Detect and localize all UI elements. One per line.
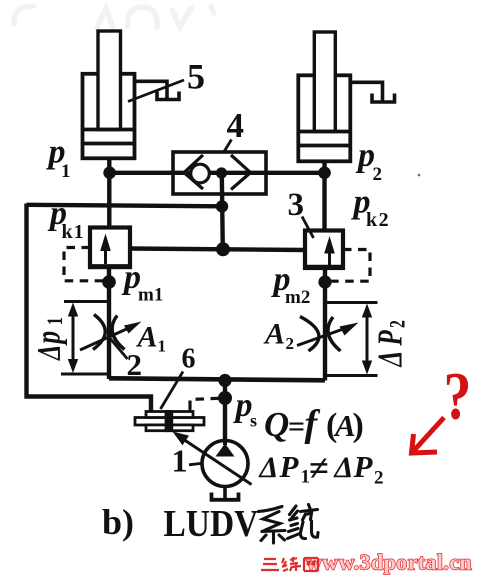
svg-text:m2: m2 — [285, 287, 310, 308]
svg-text:P: P — [353, 449, 374, 484]
svg-text:1: 1 — [44, 317, 68, 325]
svg-text:s: s — [250, 411, 257, 431]
svg-text:2: 2 — [386, 320, 410, 328]
svg-text:Δ: Δ — [371, 351, 410, 368]
svg-text:Δ: Δ — [31, 345, 67, 361]
svg-text:A: A — [263, 318, 285, 351]
svg-text:=: = — [288, 410, 305, 443]
svg-text:3: 3 — [288, 187, 305, 223]
svg-text:m1: m1 — [138, 285, 163, 306]
svg-text:6: 6 — [182, 344, 196, 375]
svg-text:p: p — [29, 331, 68, 346]
svg-text:Δ: Δ — [334, 451, 354, 484]
svg-text:?: ? — [444, 359, 472, 433]
svg-text:≠: ≠ — [309, 448, 329, 488]
svg-text:P: P — [279, 449, 300, 484]
svg-text:): ) — [353, 407, 364, 444]
svg-text:Δ: Δ — [259, 451, 279, 484]
svg-text:2: 2 — [374, 468, 384, 489]
svg-text:Q: Q — [264, 405, 289, 444]
svg-text:2: 2 — [373, 164, 383, 185]
svg-text:b): b) — [102, 502, 134, 542]
svg-text:A: A — [136, 321, 158, 354]
svg-text:5: 5 — [187, 57, 205, 97]
svg-text:k2: k2 — [366, 209, 390, 231]
svg-text:LUDV: LUDV — [164, 502, 259, 544]
svg-text:k1: k1 — [62, 221, 85, 243]
svg-text:1: 1 — [172, 443, 188, 479]
svg-text:1: 1 — [158, 337, 167, 356]
svg-text:1: 1 — [61, 161, 71, 182]
svg-text:2: 2 — [286, 334, 295, 353]
svg-text:4: 4 — [227, 106, 245, 145]
svg-text:P: P — [371, 330, 410, 347]
svg-text:www.3dportal.cn: www.3dportal.cn — [306, 550, 472, 575]
